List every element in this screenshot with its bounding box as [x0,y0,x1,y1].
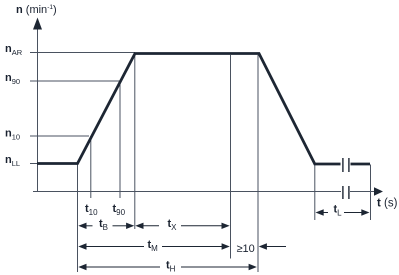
svg-text:t (s): t (s) [377,198,398,210]
svg-text:≥10: ≥10 [237,243,255,255]
